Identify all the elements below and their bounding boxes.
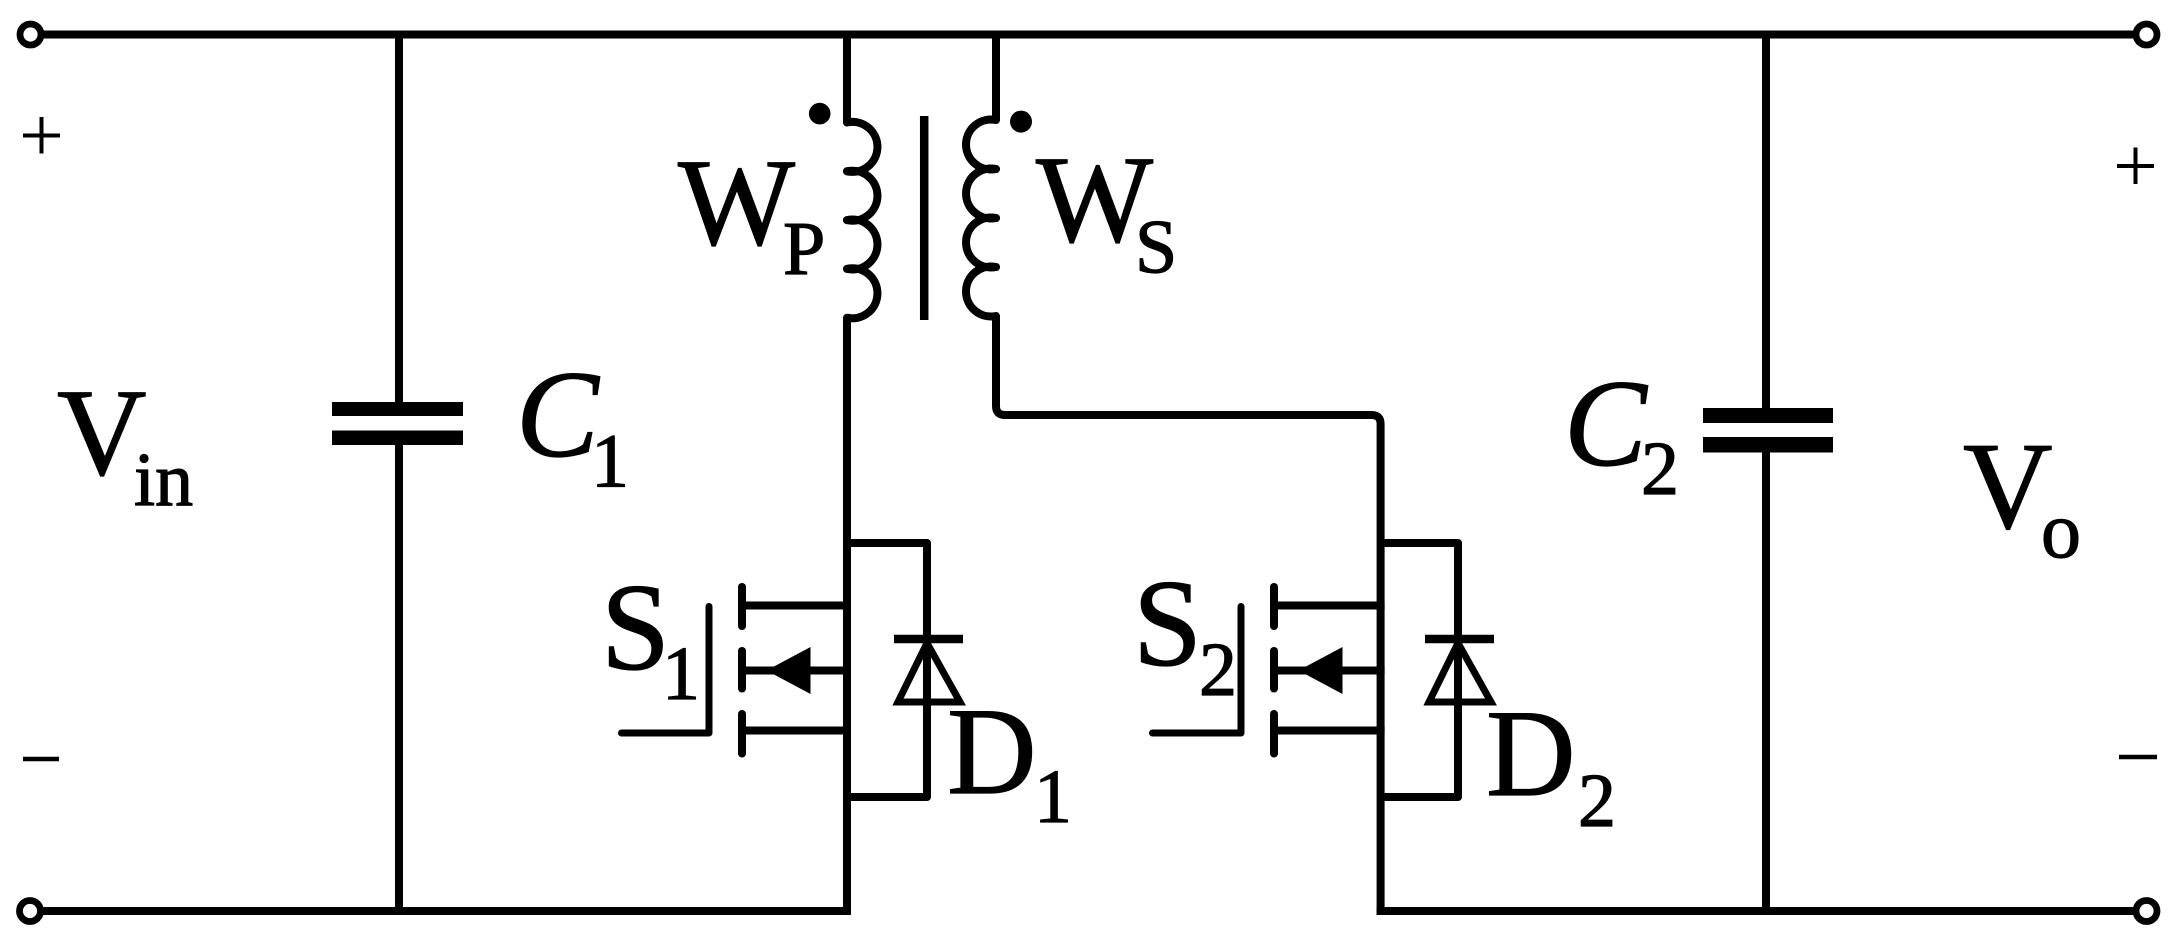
S2 channel dash middle	[1270, 651, 1278, 689]
diode D2 cathode bar	[1425, 635, 1494, 644]
S2 channel dash top	[1270, 587, 1278, 626]
node output terminal top-right	[2136, 24, 2157, 45]
S1 source lead	[742, 727, 851, 735]
S1 channel dash middle	[738, 651, 746, 689]
svg-text:2: 2	[1641, 427, 1679, 511]
S2 source lead	[1274, 727, 1385, 735]
svg-text:1: 1	[662, 632, 700, 716]
transistor S2 body arrow	[1299, 647, 1343, 694]
svg-text:o: o	[2041, 487, 2081, 575]
wire C2 branch lower	[1762, 451, 1770, 915]
wire bottom rail right	[1377, 907, 2134, 915]
plus sign left	[23, 117, 60, 154]
svg-text:1: 1	[591, 420, 629, 504]
S2 gate lead and gate bar	[1153, 607, 1242, 734]
transformer T1 primary winding WP	[847, 122, 877, 318]
S1 channel dash top	[738, 587, 746, 626]
transformer T1 secondary winding WS	[966, 120, 996, 317]
svg-text:W: W	[678, 134, 795, 271]
diode D1 triangle	[898, 643, 960, 702]
svg-text:S: S	[601, 559, 670, 696]
wire C1 branch upper	[395, 31, 403, 404]
transformer T1 primary polarity dot	[809, 103, 831, 125]
capacitor C2 bottom plate	[1703, 437, 1833, 453]
node input terminal top-left	[20, 24, 41, 45]
svg-text:2: 2	[1578, 759, 1616, 843]
svg-text:S: S	[1135, 206, 1177, 290]
capacitor C1 top plate	[332, 402, 463, 416]
svg-text:S: S	[1133, 555, 1202, 692]
svg-text:2: 2	[1199, 628, 1237, 712]
S2 channel dash bottom	[1270, 714, 1278, 754]
wire C1 branch lower	[395, 444, 403, 915]
diode D2 branch wire	[1381, 543, 1458, 797]
wire top rail	[43, 31, 2134, 39]
wire secondary bottom to S2	[996, 316, 1381, 915]
wire C2 branch upper	[1762, 31, 1770, 410]
wire S1 drain-source vertical	[843, 317, 851, 915]
S2 body lead	[1274, 667, 1385, 675]
minus sign left	[23, 757, 59, 762]
wire primary top	[843, 31, 851, 124]
node input terminal bottom-left	[20, 901, 41, 922]
transistor S1 body arrow	[767, 647, 811, 694]
svg-text:V: V	[1963, 418, 2053, 555]
S1 channel dash bottom	[738, 714, 746, 754]
svg-text:D: D	[1486, 685, 1576, 822]
svg-text:in: in	[134, 438, 193, 522]
transistor S1 (MOSFET)	[622, 587, 852, 754]
svg-text:P: P	[783, 207, 825, 291]
diode D2 triangle	[1429, 643, 1491, 702]
S1 drain lead	[742, 602, 851, 610]
svg-text:D: D	[947, 683, 1037, 820]
S2 drain lead	[1274, 602, 1385, 610]
S1 body lead	[742, 667, 851, 675]
svg-text:C: C	[516, 346, 600, 483]
diode D1 branch wire	[847, 543, 927, 797]
transformer T1 secondary polarity dot	[1010, 111, 1032, 133]
svg-text:1: 1	[1034, 755, 1072, 839]
capacitor C2 top plate	[1703, 408, 1833, 423]
transistor S2 (MOSFET)	[1153, 587, 1385, 754]
S1 gate lead and gate bar	[622, 607, 710, 734]
diode D1 cathode bar	[894, 635, 963, 644]
svg-text:C: C	[1564, 355, 1648, 492]
capacitor C1 bottom plate	[332, 431, 463, 446]
minus sign right	[2119, 755, 2157, 760]
plus sign right	[2117, 148, 2154, 185]
transformer T1 core bar	[920, 116, 929, 320]
wire secondary top	[992, 31, 1000, 121]
node output terminal bottom-right	[2136, 901, 2157, 922]
wire bottom rail left	[43, 907, 851, 915]
